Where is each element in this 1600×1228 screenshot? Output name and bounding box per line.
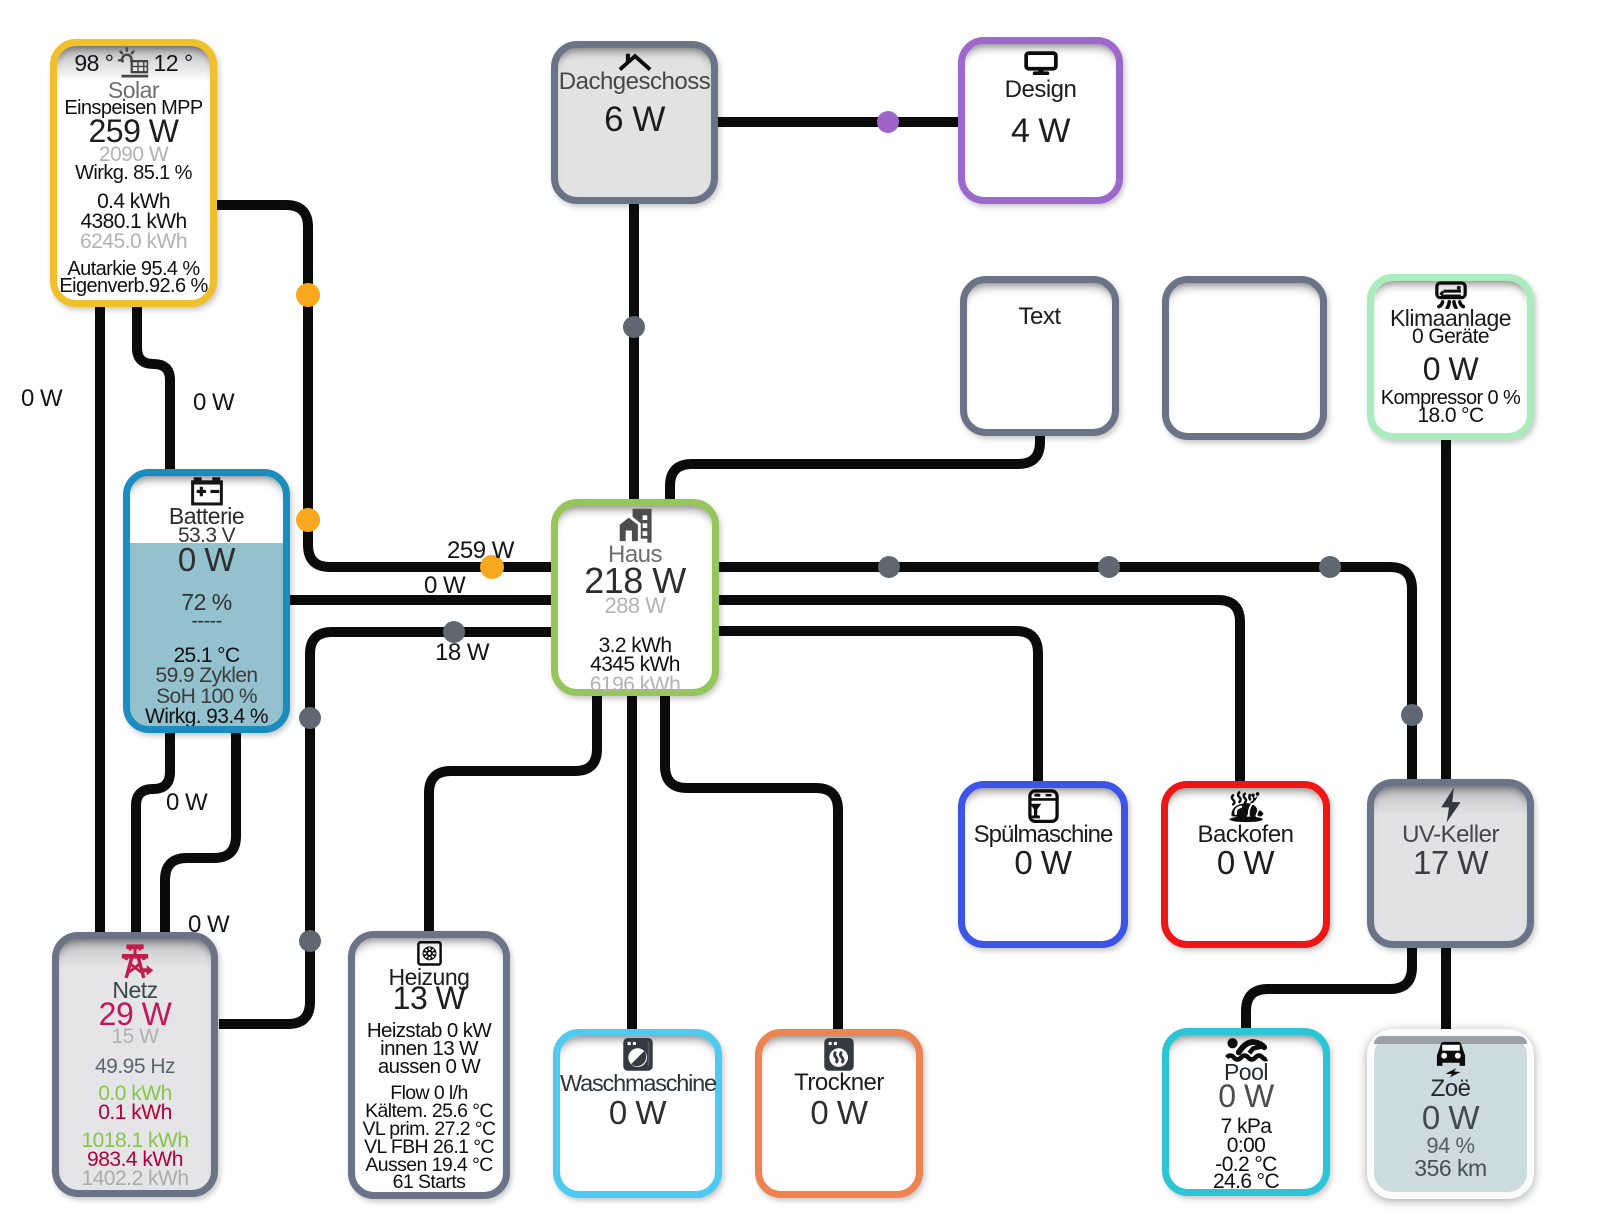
box Klimaanlage <box>1367 274 1534 440</box>
gray dot on 18W wire horizontal <box>443 621 465 643</box>
electric car icon <box>1374 1036 1527 1078</box>
box Batterie <box>123 469 290 733</box>
solar panel icon <box>117 47 151 81</box>
wire Dachgeschoss to Haus <box>629 204 639 499</box>
wire Haus to Spuelmaschine <box>719 631 1038 781</box>
box Pool <box>1162 1028 1330 1196</box>
gray dot on Haus-UV wire 2 <box>1098 556 1120 578</box>
box Solar <box>50 39 217 307</box>
box Zoe <box>1367 1029 1534 1199</box>
wire Dachgeschoss to Design <box>718 117 958 127</box>
box Netz <box>52 932 218 1197</box>
wire UV-Keller to Pool <box>1246 948 1412 1028</box>
wire Text to Haus <box>670 436 1040 499</box>
box Heizung <box>348 931 510 1199</box>
gray dot on Haus-UV wire 1 <box>878 556 900 578</box>
wire Haus to Trockner <box>665 696 838 1029</box>
box UV-Keller <box>1367 779 1534 948</box>
wire UV-Keller to Zoe <box>1441 948 1451 1029</box>
gray dot on Haus-UV wire 3 <box>1319 556 1341 578</box>
wire Haus to Netz 18W <box>219 632 551 1024</box>
label 0W on Solar-Netz second wire <box>193 389 234 417</box>
heat pump icon <box>355 939 503 969</box>
turkey icon <box>1168 788 1323 824</box>
label 0W on Batterie-Netz wire <box>188 911 229 939</box>
swim icon <box>1169 1035 1323 1063</box>
wire Haus to Waschmaschine <box>627 696 637 1029</box>
wire Haus to UV-Keller <box>719 567 1412 779</box>
box Trockner <box>755 1029 923 1198</box>
box Dachgeschoss <box>551 41 718 204</box>
label 0W on Batterie-Haus wire <box>424 572 465 600</box>
box Text <box>960 276 1119 436</box>
orange flow dot on Solar-Haus wire at Haus <box>480 555 504 579</box>
wire Solar to Netz with S-curves <box>136 307 170 932</box>
AC icon <box>1374 281 1527 309</box>
wire Batterie to Haus 0W <box>290 595 551 605</box>
box Spuelmaschine <box>958 781 1128 948</box>
label 0W on Solar-Netz wire S-curve <box>166 789 207 817</box>
box empty <box>1162 276 1327 440</box>
battery fill level 72% <box>130 543 283 726</box>
home-city icon <box>558 506 712 544</box>
monitor icon <box>965 51 1116 75</box>
wire Haus to Heizung <box>429 696 597 931</box>
wire Batterie to Netz <box>165 733 236 932</box>
tumble dryer icon <box>762 1036 916 1072</box>
gray dot on Haus-UV wire vertical <box>1401 704 1423 726</box>
orange flow dot on Solar-Haus wire upper <box>296 283 320 307</box>
car battery icon <box>130 476 283 506</box>
box Haus <box>551 499 719 696</box>
wire Haus to Backofen <box>719 600 1240 781</box>
purple flow dot on Dachgeschoss-Design wire <box>877 111 899 133</box>
box Backofen <box>1161 781 1330 948</box>
dishwasher icon <box>965 788 1121 824</box>
washing machine icon <box>560 1036 715 1072</box>
wire Solar to Haus 259W <box>217 205 551 567</box>
flash icon <box>1374 786 1527 824</box>
gray dot on 18W wire vertical upper <box>299 707 321 729</box>
box Waschmaschine <box>553 1029 722 1198</box>
label 0W on Solar-Netz left wire <box>21 385 62 413</box>
label 259W on Solar-Haus wire <box>447 537 514 565</box>
orange flow dot on Solar-Haus wire mid <box>296 508 320 532</box>
box Design <box>958 37 1123 204</box>
label 18W on Haus-Netz wire <box>435 639 489 667</box>
wire Solar to Netz left <box>95 307 105 932</box>
gray dot on 18W wire vertical lower <box>299 930 321 952</box>
wire Klimaanlage to UV-Keller <box>1441 440 1451 779</box>
roof icon <box>558 53 711 71</box>
gray dot on Dachgeschoss-Haus wire <box>623 316 645 338</box>
transmission tower icon <box>59 942 211 980</box>
